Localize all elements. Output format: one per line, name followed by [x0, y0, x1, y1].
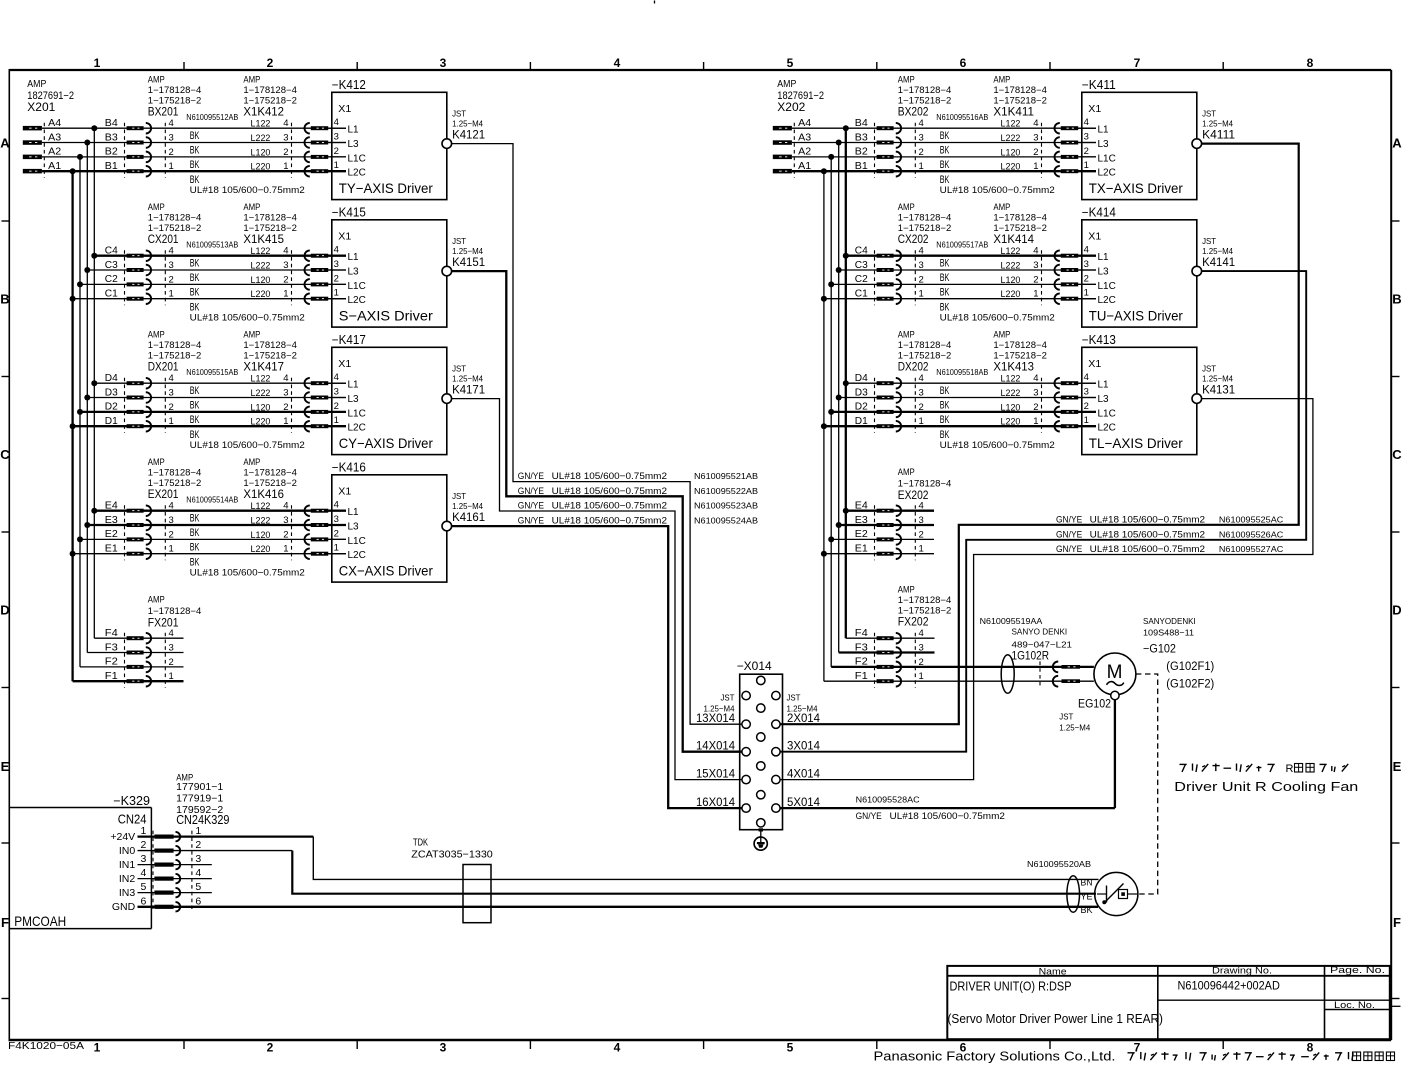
svg-text:A: A — [0, 136, 10, 151]
svg-text:IN2: IN2 — [119, 873, 136, 885]
svg-text:1: 1 — [919, 289, 924, 300]
svg-text:L1: L1 — [1098, 252, 1110, 263]
svg-text:TY−AXIS Driver: TY−AXIS Driver — [339, 180, 433, 196]
svg-text:4: 4 — [614, 1041, 621, 1055]
svg-text:GN/YE: GN/YE — [518, 471, 544, 482]
wire label GN/YE N610095526AC — [1056, 529, 1283, 540]
connector BX201 contacts — [125, 123, 166, 178]
svg-text:L120: L120 — [1001, 402, 1021, 413]
svg-text:F: F — [1, 915, 9, 930]
svg-text:JST: JST — [1202, 236, 1216, 246]
svg-text:F3: F3 — [105, 642, 118, 653]
svg-text:2: 2 — [919, 657, 924, 668]
svg-text:1−175218−2: 1−175218−2 — [243, 223, 297, 233]
svg-text:JST: JST — [452, 236, 466, 246]
svg-text:BX202: BX202 — [898, 107, 929, 119]
svg-text:1−175218−2: 1−175218−2 — [243, 351, 297, 361]
svg-text:1: 1 — [334, 543, 339, 554]
svg-text:1−178128−4: 1−178128−4 — [243, 212, 297, 222]
svg-text:B3: B3 — [105, 132, 118, 143]
svg-text:1: 1 — [1033, 289, 1038, 300]
svg-text:L122: L122 — [251, 119, 271, 130]
svg-text:177919−1: 177919−1 — [176, 793, 223, 804]
svg-text:TL−AXIS Driver: TL−AXIS Driver — [1089, 435, 1183, 451]
wire E1 — [73, 553, 346, 555]
svg-text:6: 6 — [141, 895, 147, 907]
svg-text:L1C: L1C — [348, 153, 366, 164]
svg-text:L1: L1 — [348, 380, 360, 391]
connector X1K415 contacts — [292, 250, 329, 305]
K414 pin stubs — [1078, 256, 1096, 299]
svg-text:2: 2 — [141, 839, 147, 851]
wire B4 — [42, 127, 346, 129]
svg-text:UL#18 105/600−0.75mm2: UL#18 105/600−0.75mm2 — [552, 471, 667, 482]
svg-text:L122: L122 — [1001, 119, 1021, 130]
JST terminal K4111 — [1192, 109, 1235, 149]
svg-text:2: 2 — [169, 274, 174, 285]
svg-text:3: 3 — [919, 260, 924, 271]
svg-text:F4: F4 — [855, 628, 868, 639]
wire IN2 — [138, 878, 212, 880]
pin numbers X1K414 — [1033, 246, 1038, 300]
svg-text:Page. No.: Page. No. — [1330, 965, 1385, 976]
motor labels SANYODENKI 109S488-11 -G102 — [1143, 616, 1214, 691]
svg-text:3: 3 — [283, 515, 288, 526]
svg-text:L222: L222 — [1001, 133, 1021, 144]
svg-text:8: 8 — [1307, 1041, 1314, 1055]
net labels D4-D1 — [855, 373, 868, 427]
svg-text:L1: L1 — [1098, 380, 1110, 391]
wire E4 — [94, 510, 346, 512]
svg-text:X1K415: X1K415 — [243, 234, 284, 246]
svg-text:L1: L1 — [348, 125, 360, 136]
K416 pin numbers — [334, 500, 339, 554]
svg-text:4: 4 — [169, 118, 174, 129]
svg-text:−K412: −K412 — [332, 78, 366, 92]
svg-text:C4: C4 — [855, 246, 868, 257]
connector CX201 part labels — [148, 202, 202, 246]
svg-text:BK: BK — [940, 159, 950, 171]
wire IN3 — [138, 892, 212, 894]
wire K4161 to 16X014 — [452, 526, 742, 808]
K416 pin names — [348, 507, 366, 561]
row letters right — [1392, 136, 1402, 931]
svg-text:BK: BK — [940, 258, 950, 270]
svg-text:E2: E2 — [855, 529, 868, 540]
svg-text:E4: E4 — [105, 501, 118, 512]
svg-text:F4K1020−05A: F4K1020−05A — [8, 1040, 84, 1052]
svg-text:1: 1 — [334, 160, 339, 171]
svg-text:X1K416: X1K416 — [243, 489, 284, 501]
wire F1 — [73, 680, 184, 682]
svg-text:3: 3 — [334, 387, 339, 398]
svg-text:L222: L222 — [251, 133, 271, 144]
svg-text:15X014: 15X014 — [696, 768, 736, 780]
svg-text:BK: BK — [190, 286, 200, 298]
svg-text:5: 5 — [787, 56, 794, 70]
wire E2 — [80, 538, 346, 540]
svg-text:1: 1 — [169, 671, 174, 682]
svg-text:1−178128−4: 1−178128−4 — [898, 85, 952, 95]
svg-text:N610095523AB: N610095523AB — [694, 501, 758, 511]
svg-text:1: 1 — [283, 416, 288, 427]
svg-text:F3: F3 — [855, 642, 868, 653]
svg-text:6: 6 — [195, 895, 201, 907]
svg-text:ZCAT3035−1330: ZCAT3035−1330 — [411, 848, 493, 860]
wire B2 — [42, 156, 346, 158]
svg-text:B1: B1 — [855, 161, 868, 172]
svg-text:C2: C2 — [105, 274, 118, 285]
svg-text:AMP: AMP — [27, 79, 46, 90]
pin numbers DX201 — [169, 373, 174, 427]
svg-text:1−178128−4: 1−178128−4 — [148, 340, 202, 350]
svg-text:BN: BN — [1081, 878, 1093, 889]
net labels F4-F1 — [855, 628, 868, 682]
svg-text:L3: L3 — [348, 139, 360, 150]
pin numbers DX202 — [919, 373, 924, 427]
svg-text:UL#18 105/600−0.75mm2: UL#18 105/600−0.75mm2 — [1090, 514, 1205, 525]
wire D1 — [73, 425, 346, 427]
svg-text:1−175218−2: 1−175218−2 — [148, 351, 202, 361]
bus wire pin2 left — [79, 157, 81, 667]
svg-text:4: 4 — [919, 246, 924, 257]
svg-text:BK: BK — [940, 286, 950, 298]
junctions pin4 bus — [91, 125, 97, 514]
svg-text:E3: E3 — [105, 515, 118, 526]
wire C3 — [839, 269, 1096, 271]
svg-text:L220: L220 — [251, 289, 271, 300]
top center registration mark — [654, 1, 656, 4]
bus wire pin3 right — [838, 143, 840, 653]
net labels C4-C1 — [105, 246, 118, 300]
connector X1K417 contacts — [292, 378, 329, 433]
svg-text:X1: X1 — [338, 230, 351, 242]
svg-text:L3: L3 — [1098, 267, 1110, 278]
svg-text:4: 4 — [1084, 372, 1089, 383]
wire label GN/YE N610095525AC — [1056, 514, 1283, 525]
svg-text:Panasonic Factory Solutions Co: Panasonic Factory Solutions Co.,Ltd. — [874, 1050, 1116, 1064]
svg-text:1: 1 — [1084, 160, 1089, 171]
svg-text:Name: Name — [1039, 966, 1067, 977]
connector CX201 contacts — [125, 250, 166, 305]
svg-text:BK: BK — [190, 400, 200, 412]
svg-text:L120: L120 — [1001, 275, 1021, 286]
K411 pin names — [1098, 125, 1116, 179]
svg-text:C3: C3 — [105, 260, 118, 271]
svg-text:F4: F4 — [105, 628, 118, 639]
svg-text:L220: L220 — [1001, 417, 1021, 428]
svg-text:A2: A2 — [48, 147, 61, 158]
svg-text:GN/YE: GN/YE — [856, 811, 882, 822]
svg-text:1−175218−2: 1−175218−2 — [993, 223, 1047, 233]
terminal X202 part labels — [777, 79, 824, 114]
K415 pin names — [348, 252, 366, 306]
svg-text:N610095520AB: N610095520AB — [1027, 859, 1091, 869]
svg-text:L2C: L2C — [1098, 295, 1116, 306]
svg-text:R: R — [1286, 763, 1294, 775]
svg-text:AMP: AMP — [898, 202, 915, 212]
svg-text:AMP: AMP — [243, 329, 260, 339]
wire labels L122 L222 L120 L220 — [251, 119, 271, 173]
net labels A4-A1 of X202 — [798, 118, 811, 172]
svg-text:SANYO DENKI: SANYO DENKI — [1012, 627, 1068, 637]
svg-text:GN/YE: GN/YE — [1056, 544, 1082, 555]
connector FX201 contacts — [125, 633, 166, 688]
frame ticks right — [1391, 221, 1399, 999]
driver unit K413 block — [1082, 333, 1197, 455]
svg-text:GN/YE: GN/YE — [1056, 529, 1082, 540]
svg-text:JST: JST — [452, 364, 466, 374]
connector CN24K329 contacts — [153, 831, 192, 912]
svg-text:GN/YE: GN/YE — [518, 515, 544, 526]
svg-text:BK: BK — [940, 385, 950, 397]
driver unit K416 block — [332, 460, 447, 582]
svg-text:D3: D3 — [855, 387, 868, 398]
svg-text:−K411: −K411 — [1082, 78, 1116, 92]
svg-text:JST: JST — [721, 693, 735, 703]
junctions pin2 bus — [828, 154, 834, 543]
svg-text:X1K411: X1K411 — [993, 107, 1034, 119]
svg-text:N610095522AB: N610095522AB — [694, 486, 758, 496]
svg-text:2: 2 — [334, 401, 339, 412]
wire labels L122 L222 L120 L220 — [1001, 246, 1021, 300]
svg-text:3: 3 — [1084, 132, 1089, 143]
svg-text:UL#18 105/600−0.75mm2: UL#18 105/600−0.75mm2 — [890, 811, 1005, 822]
svg-text:2: 2 — [283, 274, 288, 285]
svg-text:L1C: L1C — [1098, 153, 1116, 164]
svg-text:BK: BK — [190, 385, 200, 397]
cooling fan caption — [1174, 763, 1358, 794]
wire labels L122 L222 L120 L220 — [1001, 374, 1021, 428]
svg-text:3: 3 — [195, 853, 201, 865]
svg-text:2: 2 — [283, 147, 288, 158]
svg-text:1: 1 — [195, 825, 201, 837]
svg-text:3: 3 — [919, 515, 924, 526]
connector DX201 contacts — [125, 378, 166, 433]
pin numbers X1K412 — [283, 118, 288, 172]
svg-text:UL#18 105/600−0.75mm2: UL#18 105/600−0.75mm2 — [190, 185, 305, 196]
svg-text:14X014: 14X014 — [696, 740, 736, 752]
X014 ground tail — [759, 828, 763, 842]
wire F3 — [87, 652, 183, 654]
wire color labels BK — [190, 513, 200, 569]
K416 pin stubs — [328, 511, 346, 554]
wire F2 — [80, 666, 184, 668]
svg-text:1: 1 — [334, 288, 339, 299]
svg-text:BK: BK — [190, 258, 200, 270]
driver unit K412 block — [332, 78, 447, 200]
svg-text:2: 2 — [1084, 273, 1089, 284]
svg-text:L2C: L2C — [348, 550, 366, 561]
svg-text:L1: L1 — [1098, 125, 1110, 136]
svg-text:BK: BK — [190, 513, 200, 525]
connector X1K412 part labels — [243, 74, 297, 118]
wire EG102 to 5X014 — [1114, 700, 1116, 808]
svg-text:AMP: AMP — [993, 329, 1010, 339]
svg-text:L3: L3 — [348, 394, 360, 405]
X014 right pin labels — [787, 693, 821, 809]
svg-text:3: 3 — [919, 643, 924, 654]
svg-text:L122: L122 — [1001, 246, 1021, 257]
svg-text:1: 1 — [169, 161, 174, 172]
svg-text:M: M — [1107, 662, 1123, 683]
wire C4 — [94, 255, 346, 257]
svg-text:JST: JST — [452, 491, 466, 501]
svg-text:(G102F1): (G102F1) — [1166, 661, 1214, 673]
svg-text:E1: E1 — [105, 544, 118, 555]
svg-text:EG102: EG102 — [1078, 698, 1111, 710]
svg-text:BK: BK — [190, 414, 200, 426]
svg-text:K4111: K4111 — [1202, 127, 1235, 141]
svg-text:D4: D4 — [855, 373, 868, 384]
svg-text:1−178128−4: 1−178128−4 — [243, 85, 297, 95]
wire E3 — [839, 524, 934, 526]
svg-text:Drawing No.: Drawing No. — [1212, 966, 1272, 977]
wire IN1 — [138, 864, 212, 866]
svg-text:D3: D3 — [105, 387, 118, 398]
svg-text:GND: GND — [112, 901, 136, 913]
svg-text:2: 2 — [919, 147, 924, 158]
svg-text:FX201: FX201 — [148, 618, 179, 630]
svg-text:N610095524AB: N610095524AB — [694, 515, 758, 525]
svg-text:AMP: AMP — [243, 457, 260, 467]
wire B3 — [42, 142, 346, 144]
wire C1 — [824, 298, 1096, 300]
svg-text:X1: X1 — [338, 358, 351, 370]
svg-text:AMP: AMP — [243, 202, 260, 212]
svg-text:3: 3 — [1084, 387, 1089, 398]
svg-text:AMP: AMP — [898, 584, 915, 594]
svg-text:C1: C1 — [855, 289, 868, 300]
svg-text:CX202: CX202 — [898, 234, 929, 246]
svg-text:A4: A4 — [48, 118, 61, 129]
svg-text:L220: L220 — [1001, 289, 1021, 300]
connector BX202 contacts — [875, 123, 916, 178]
svg-text:+24V: +24V — [110, 831, 135, 843]
connector FX202 contacts — [875, 633, 916, 688]
svg-text:L120: L120 — [251, 275, 271, 286]
K414 pin numbers — [1084, 245, 1089, 299]
svg-text:L2C: L2C — [1098, 168, 1116, 179]
svg-text:D1: D1 — [105, 416, 118, 427]
svg-text:1: 1 — [1084, 415, 1089, 426]
connector X014 right contacts — [772, 691, 780, 812]
connector FX202 part labels — [898, 584, 952, 628]
svg-text:N610095512AB: N610095512AB — [186, 112, 238, 122]
svg-text:1.25−M4: 1.25−M4 — [1059, 723, 1090, 733]
svg-text:2: 2 — [1033, 402, 1038, 413]
svg-text:N610095528AC: N610095528AC — [856, 795, 920, 805]
svg-text:1−175218−2: 1−175218−2 — [993, 351, 1047, 361]
wire color labels BK — [940, 130, 950, 186]
svg-text:1−178128−4: 1−178128−4 — [148, 606, 202, 616]
svg-text:3: 3 — [169, 260, 174, 271]
svg-text:2: 2 — [169, 147, 174, 158]
svg-text:C: C — [1392, 447, 1402, 462]
svg-text:2: 2 — [169, 402, 174, 413]
svg-text:TU−AXIS Driver: TU−AXIS Driver — [1089, 308, 1183, 324]
svg-text:4: 4 — [1084, 117, 1089, 128]
svg-text:2: 2 — [267, 1041, 274, 1055]
svg-text:D4: D4 — [105, 373, 118, 384]
svg-text:3: 3 — [1033, 260, 1038, 271]
svg-text:L220: L220 — [251, 162, 271, 173]
svg-text:1: 1 — [283, 289, 288, 300]
ferrite filter TDK ZCAT3035-1330 — [411, 838, 493, 923]
svg-text:UL#18 105/600−0.75mm2: UL#18 105/600−0.75mm2 — [1090, 529, 1205, 540]
svg-text:3: 3 — [169, 388, 174, 399]
junctions pin1 bus — [70, 168, 76, 557]
wire F2 — [831, 666, 1094, 668]
connector X014 left contacts — [742, 691, 750, 812]
svg-text:X1K412: X1K412 — [243, 107, 284, 119]
connector X1K415 part labels — [243, 202, 297, 246]
junctions pin3 bus — [836, 140, 842, 529]
svg-text:4: 4 — [334, 245, 339, 256]
connector DX201 part labels — [148, 329, 202, 373]
svg-text:3: 3 — [334, 514, 339, 525]
svg-text:CN24K329: CN24K329 — [176, 813, 229, 827]
svg-text:1: 1 — [141, 825, 147, 837]
K415 pin stubs — [328, 256, 346, 299]
svg-text:1−175218−2: 1−175218−2 — [898, 223, 952, 233]
svg-text:TX−AXIS Driver: TX−AXIS Driver — [1089, 180, 1183, 196]
svg-text:N610095521AB: N610095521AB — [694, 471, 758, 481]
svg-text:489−047−L21: 489−047−L21 — [1012, 640, 1073, 650]
svg-text:4X014: 4X014 — [787, 768, 821, 780]
wire labels L122 L222 L120 L220 — [251, 374, 271, 428]
row letters left — [0, 136, 10, 931]
company name — [874, 1050, 1395, 1064]
svg-text:AMP: AMP — [993, 74, 1010, 84]
svg-text:4: 4 — [283, 246, 288, 257]
svg-text:UL#18 105/600−0.75mm2: UL#18 105/600−0.75mm2 — [552, 486, 667, 497]
svg-text:3: 3 — [169, 515, 174, 526]
pin numbers X1K411 — [1033, 118, 1038, 172]
K412 pin numbers — [334, 117, 339, 171]
svg-text:N610095525AC: N610095525AC — [1219, 514, 1283, 524]
ground terminal EG102 — [1059, 691, 1119, 732]
svg-text:L3: L3 — [348, 267, 360, 278]
svg-text:DX201: DX201 — [148, 362, 179, 374]
svg-text:5: 5 — [141, 881, 147, 893]
svg-text:3: 3 — [141, 853, 147, 865]
svg-text:2: 2 — [169, 657, 174, 668]
svg-text:B3: B3 — [855, 132, 868, 143]
svg-text:EX202: EX202 — [898, 490, 929, 502]
svg-text:1: 1 — [1033, 161, 1038, 172]
connector DX202 contacts — [875, 378, 916, 433]
net labels B4-B1 — [855, 118, 868, 172]
svg-text:AMP: AMP — [993, 202, 1010, 212]
svg-text:2: 2 — [919, 529, 924, 540]
svg-text:L222: L222 — [1001, 388, 1021, 399]
svg-text:1−175218−2: 1−175218−2 — [148, 223, 202, 233]
junctions pin4 bus — [843, 125, 849, 514]
svg-text:C4: C4 — [105, 246, 118, 257]
svg-text:L222: L222 — [251, 516, 271, 527]
svg-text:1−178128−4: 1−178128−4 — [993, 85, 1047, 95]
svg-text:JST: JST — [787, 693, 801, 703]
svg-text:3: 3 — [1033, 388, 1038, 399]
connector BX202 part labels — [898, 74, 952, 118]
svg-text:N610095515AB: N610095515AB — [186, 367, 238, 377]
svg-text:1−178128−4: 1−178128−4 — [148, 467, 202, 477]
svg-text:−X014: −X014 — [737, 659, 772, 673]
wire C1 — [73, 298, 346, 300]
svg-text:1−175218−2: 1−175218−2 — [243, 96, 297, 106]
svg-text:K4151: K4151 — [452, 255, 485, 269]
